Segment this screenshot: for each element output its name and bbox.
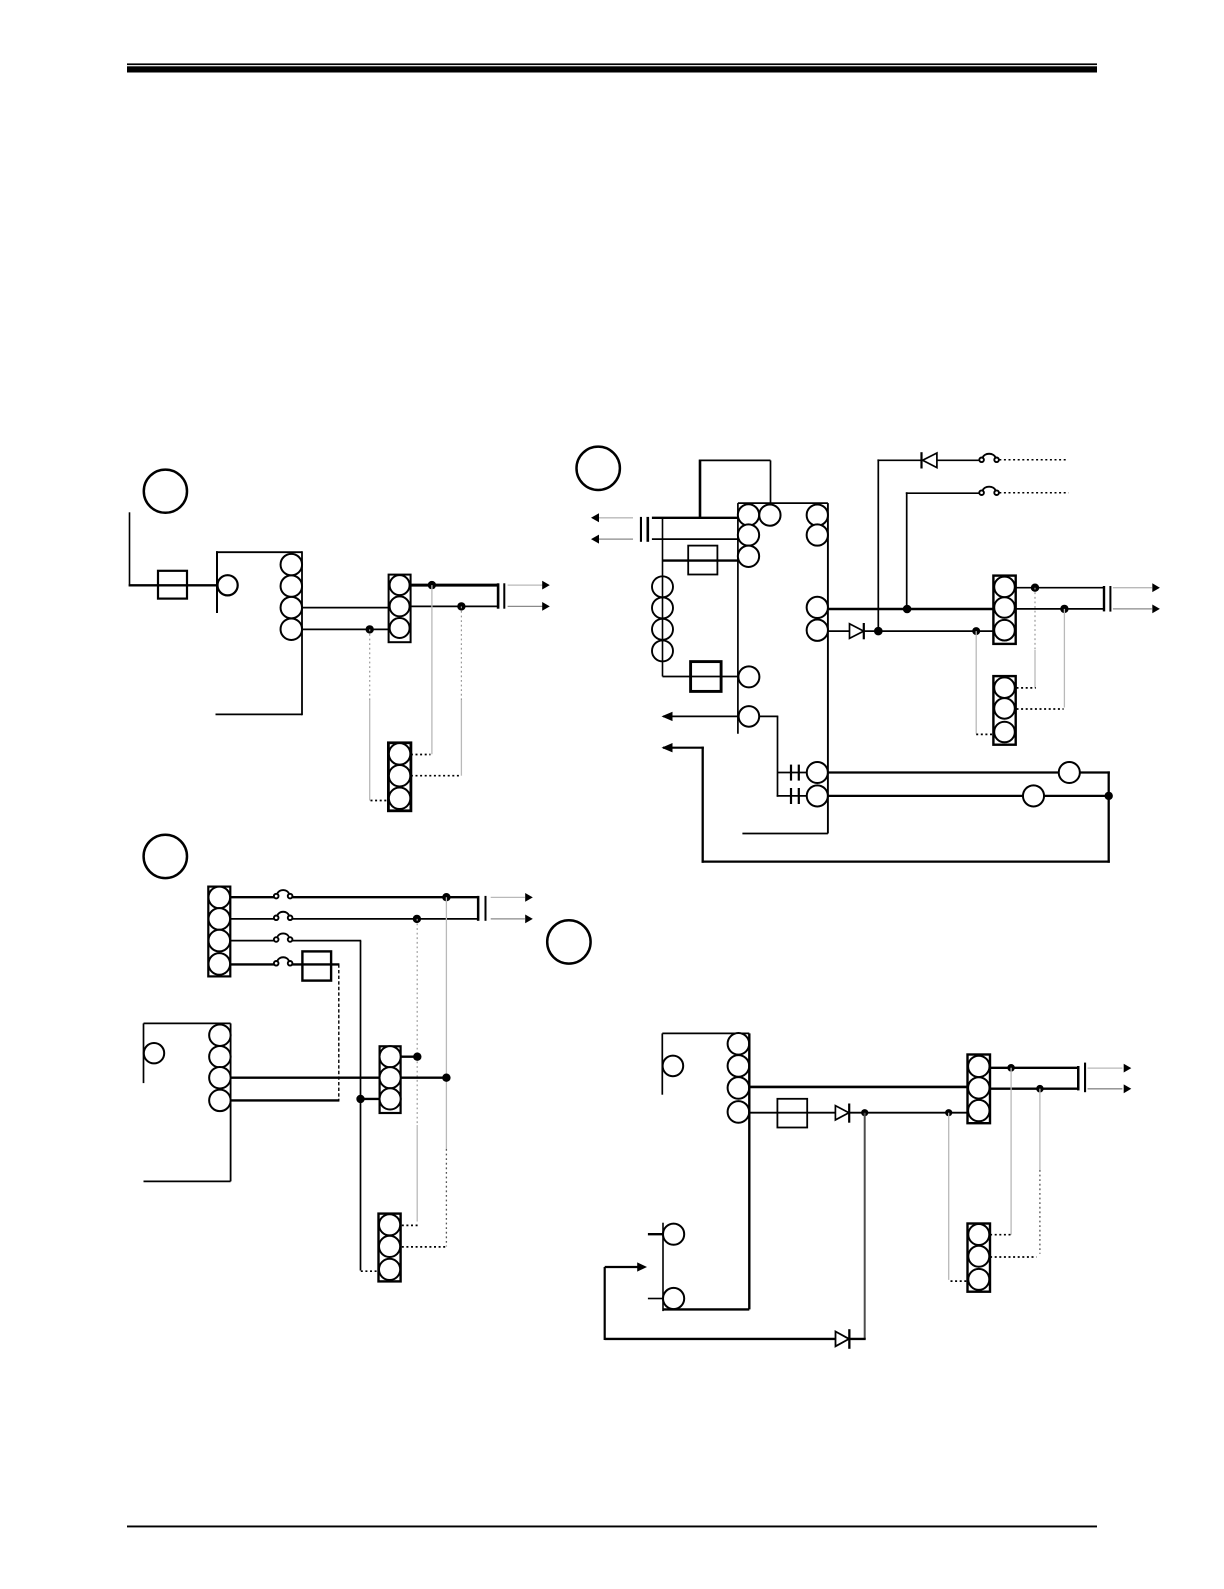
- wire: CN5 pin1 to switch: [230, 896, 276, 898]
- ignition coil terminal 2: [807, 785, 828, 806]
- wire: switch to plug pin2: [290, 918, 477, 920]
- wire: M3 pin3 to CN8: [749, 1086, 967, 1089]
- junction on pin1 wire: [442, 893, 450, 901]
- magneto M1 terminal circles: [281, 554, 303, 640]
- wire: feed bottom run: [605, 1338, 836, 1340]
- wire: CDI to diode D2: [828, 630, 850, 632]
- connector plug bar S4-B: [485, 896, 487, 921]
- magneto M2 right edge: [230, 1023, 232, 1181]
- wire: rectifier drop: [864, 1113, 866, 1339]
- magneto M1 top edge: [216, 551, 302, 553]
- harness trace: pin1 to CN2: [431, 585, 433, 754]
- section marker 3: [144, 835, 187, 878]
- harness trace: CN3 pin2 to CN4: [1063, 609, 1065, 708]
- connector CN2 housing: [388, 743, 411, 811]
- switch SW4: [274, 912, 293, 920]
- connector CN9 housing: [968, 1224, 991, 1292]
- wire: lighting line vertical: [906, 492, 908, 609]
- wire: CN5 pin2 to switch: [230, 918, 276, 920]
- harness arrow out 5: [491, 893, 533, 902]
- junction after D2: [874, 627, 883, 636]
- connector plug bar S2-B: [647, 517, 650, 542]
- magneto M1 right edge: [301, 551, 303, 715]
- dashed run: F4 to M2 pin4: [338, 964, 340, 1100]
- junction on CN1 pin2 wire: [457, 602, 465, 610]
- wire: CN3 pin2 output: [1016, 608, 1104, 610]
- ground arrow A3: [662, 712, 739, 721]
- harness trace B upper: [416, 919, 418, 1125]
- wire: exciter hat right: [770, 460, 772, 503]
- section marker 4: [547, 920, 590, 963]
- harness arrow in 1: [591, 513, 633, 522]
- inline connector on HT lead 1: [1059, 762, 1080, 783]
- junction before CN8: [945, 1109, 952, 1116]
- rectifier bracket: [662, 1223, 664, 1311]
- wire: D2 to connector CN3: [864, 630, 994, 632]
- switch SW6: [274, 957, 293, 965]
- section marker 2: [577, 447, 620, 490]
- junction on CDI main out: [903, 605, 912, 614]
- terminal circle: pulser out: [739, 706, 760, 727]
- wire: CN6 pin3 stub: [361, 1098, 380, 1100]
- junction on trace A: [442, 1074, 450, 1082]
- wire: HT return left: [702, 747, 704, 863]
- wire: CDI main out: [828, 608, 994, 611]
- magneto M3 left edge: [661, 1033, 663, 1094]
- light switch SW2: [979, 487, 999, 495]
- wire: coil HT lead 2: [828, 795, 1110, 797]
- harness arrow out 2: [508, 602, 550, 611]
- harness trace A upper: [445, 897, 447, 1149]
- wire: CN3 pin1 output: [1016, 587, 1104, 589]
- wire: coil primary stub 2: [777, 795, 807, 797]
- wire: plug to CDI pin1: [652, 517, 739, 519]
- dotted link CN7 pin2: [402, 1246, 446, 1248]
- connector CN7 housing: [379, 1214, 401, 1282]
- CDI terminal circles left: [738, 504, 781, 567]
- wire: pulser jog right: [759, 715, 778, 717]
- connector CN8 housing: [968, 1055, 991, 1124]
- harness trace: pin4 to CN2: [369, 629, 371, 800]
- connector plug bar S3-A: [1103, 586, 1105, 611]
- switch SW3: [274, 890, 293, 898]
- harness trace: CN8 pin2 to CN9: [1039, 1089, 1041, 1254]
- inline connector on HT lead 2: [1023, 785, 1044, 806]
- page footer rule: [127, 1526, 1097, 1528]
- wire: lead to fuse F1: [129, 584, 218, 586]
- wire: D1 to stop switch: [937, 459, 979, 461]
- section marker 1: [144, 470, 187, 513]
- dotted link CN9 pin2: [990, 1256, 1036, 1258]
- CDI terminal circles right top: [807, 504, 828, 545]
- connector CN4 pins: [994, 677, 1015, 742]
- wire: M3 pin4 through fuse F5: [749, 1112, 835, 1114]
- harness trace: CN8 pin1 to CN9: [1010, 1068, 1012, 1235]
- CDI unit U1 left edge: [737, 503, 739, 734]
- harness trace: D2 line to CN4: [975, 631, 977, 734]
- terminal circle: M2 kill terminal: [144, 1043, 164, 1063]
- harness arrow out 1: [508, 581, 550, 590]
- terminal circle: F3 to CDI: [738, 666, 759, 687]
- harness trace A lower: [445, 1149, 447, 1246]
- stop switch SW1: [979, 454, 999, 462]
- rectifier bottom edge: [663, 1308, 749, 1310]
- junction on CN8 pin1 wire: [1007, 1064, 1015, 1072]
- terminal circle: magneto M1 kill terminal: [218, 575, 238, 595]
- wire: CN1 pin1 output: [411, 584, 498, 587]
- wire: lighting line top: [906, 492, 979, 494]
- fuse F1: [158, 571, 187, 599]
- dotted link CN4 pin1: [1017, 687, 1036, 689]
- exciter coil terminals on bus: [652, 576, 673, 661]
- connector CN7 pins: [379, 1214, 400, 1280]
- bullet connector ticks 2: [790, 788, 800, 804]
- junction on pin2 wire: [413, 915, 421, 923]
- wire: HT return bottom: [702, 860, 1110, 862]
- wire: feed drop: [604, 1267, 606, 1340]
- harness arrow out 7: [1088, 1064, 1132, 1073]
- diode D3: [835, 1104, 850, 1123]
- dotted link CN7 pin1: [402, 1224, 418, 1226]
- wire: M2 pin4 to dashed run: [231, 1099, 340, 1101]
- wire: CN5 pin3 to switch: [230, 940, 276, 942]
- harness arrow out 6: [491, 915, 533, 924]
- magneto M1 bottom edge: [216, 713, 303, 715]
- harness trace B lower: [416, 1125, 418, 1222]
- connector CN3 housing: [993, 576, 1015, 644]
- junction on down-run: [356, 1095, 364, 1103]
- magneto M2 terminal circles: [209, 1024, 231, 1111]
- wire: M1 pin4 to connector CN1: [302, 628, 389, 630]
- diode D2: [850, 623, 865, 639]
- magneto M3 terminal circles: [728, 1033, 750, 1123]
- connector plug bar S5-A: [1077, 1066, 1080, 1090]
- junction on CN3 pin1 wire: [1031, 584, 1039, 592]
- connector CN5 housing: [208, 887, 230, 977]
- magneto M3 right edge: [748, 1033, 750, 1309]
- junction on M1 pin4 wire: [366, 625, 374, 633]
- junction on CN1 pin1 wire: [428, 581, 436, 589]
- wire: CN1 pin2 output: [411, 605, 498, 607]
- wire: switch to plug pin1: [290, 896, 477, 898]
- wire: rectifier out stub: [648, 1298, 663, 1300]
- harness trace: CN3 pin1 to CN4: [1034, 588, 1036, 688]
- junction on HT lead 2: [1105, 792, 1113, 800]
- switch SW5: [274, 933, 293, 941]
- dotted link CN4 pin3: [976, 733, 993, 735]
- connector plug bar S1-B: [503, 583, 505, 608]
- CDI output terminals right: [807, 597, 828, 641]
- wire: magneto lead vertical: [129, 512, 131, 586]
- wire: switch to down-run: [290, 940, 361, 942]
- junction on trace B: [413, 1053, 421, 1061]
- fuse F5: [777, 1099, 807, 1128]
- connector CN6 housing: [380, 1046, 401, 1113]
- fuse F2: [688, 546, 717, 575]
- wire: pin3 down-run: [360, 941, 362, 1271]
- wire: CN5 pin4 to switch: [230, 963, 276, 965]
- junction on CN8 pin2 wire: [1036, 1085, 1044, 1093]
- connector CN5 pins: [209, 887, 231, 975]
- wire: plug to CDI pin2: [652, 538, 739, 540]
- harness arrow in 2: [591, 535, 633, 544]
- dotted link CN4 pin2: [1017, 708, 1064, 710]
- magneto M1 left bracket: [216, 551, 218, 613]
- ground arrow A4: [662, 743, 704, 752]
- connector CN1 pins: [390, 575, 410, 638]
- junction before CN3: [972, 627, 980, 635]
- dotted lead from SW1: [999, 459, 1066, 461]
- wire: bus to fuse F2: [663, 559, 739, 561]
- harness arrow out 3: [1113, 583, 1160, 592]
- wire: rectifier in stub: [648, 1233, 663, 1235]
- magneto M2 left edge: [143, 1023, 145, 1083]
- feed arrow into rectifier: [605, 1262, 647, 1271]
- magneto M3 top edge: [662, 1032, 749, 1034]
- wire: switch through fuse F4: [290, 963, 339, 965]
- wire: bus to fuse F3: [663, 676, 739, 678]
- wire: M1 pin3 to connector CN1: [302, 607, 389, 609]
- dotted link CN2 pin2: [411, 775, 460, 777]
- magneto M2 bottom edge: [144, 1180, 231, 1182]
- wire: HT return right: [1108, 771, 1110, 862]
- connector CN9 pins: [968, 1224, 989, 1290]
- terminal circle: rectifier out: [663, 1288, 684, 1309]
- harness arrow out 4: [1113, 605, 1160, 614]
- wire: CN6 pin2 stub: [401, 1076, 447, 1078]
- connector CN8 pins: [968, 1056, 989, 1122]
- connector CN4 housing: [993, 676, 1015, 745]
- dotted link CN9 pin3: [951, 1280, 968, 1282]
- wire: kill line vertical: [877, 459, 879, 631]
- wire: D4 to rectifier drop: [849, 1338, 866, 1340]
- wire: CDI left bus: [662, 518, 664, 677]
- ignition coil terminal 1: [807, 762, 828, 783]
- CDI unit U1 right edge: [827, 503, 829, 833]
- bullet connector ticks 1: [790, 765, 800, 781]
- CDI unit U1 top edge: [738, 502, 828, 504]
- wire: M2 pin3 to CN6: [231, 1076, 380, 1078]
- terminal circle: rectifier in: [663, 1224, 684, 1245]
- connector plug bar S1-A: [497, 583, 500, 608]
- wire: CN8 pin1 output: [990, 1067, 1078, 1069]
- wire: coil HT lead 1: [828, 771, 1110, 773]
- connector CN3 pins: [994, 577, 1015, 641]
- wire: kill line top: [877, 459, 921, 461]
- fuse F3: [691, 662, 722, 692]
- connector plug bar S3-B: [1109, 586, 1111, 612]
- wire: CN6 pin1 stub: [401, 1055, 418, 1057]
- fuse F4: [302, 951, 331, 980]
- dotted link CN9 pin1: [990, 1234, 1012, 1236]
- wire: pulser drop: [777, 716, 779, 796]
- connector plug bar S5-B: [1084, 1063, 1086, 1093]
- dotted lead from SW2: [999, 492, 1068, 494]
- dotted link CN7 pin3: [361, 1270, 379, 1272]
- connector plug bar S2-A: [640, 517, 642, 542]
- wire: CN8 pin2 output: [990, 1088, 1078, 1090]
- harness arrow out 8: [1088, 1084, 1132, 1093]
- page header double rule: [127, 63, 1097, 72]
- magneto M2 top edge: [144, 1022, 231, 1024]
- diode D1: [920, 452, 937, 468]
- CDI unit U1 bottom edge: [742, 833, 828, 835]
- dotted link CN2 pin3: [371, 800, 389, 802]
- wire: D3 to CN8: [849, 1112, 968, 1114]
- harness trace: D3 line to CN9: [948, 1113, 950, 1280]
- connector CN6 pins: [380, 1046, 401, 1109]
- wire: exciter hat top: [699, 459, 771, 461]
- wire: exciter hat vertical: [699, 460, 702, 518]
- wire: coil primary stub 1: [778, 772, 808, 774]
- terminal circle: M3 kill terminal: [663, 1056, 684, 1077]
- connector CN1 housing: [389, 575, 411, 643]
- diode D4: [836, 1329, 851, 1349]
- dotted link CN2 pin1: [411, 754, 431, 756]
- harness trace: pin2 to CN2: [460, 606, 462, 775]
- connector CN2 pins: [389, 743, 411, 809]
- junction after D3: [861, 1109, 868, 1116]
- junction on CN3 pin2 wire: [1060, 605, 1068, 613]
- connector plug bar S4-A: [477, 896, 480, 921]
